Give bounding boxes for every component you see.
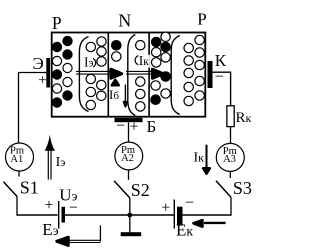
current arrow Iк downward bbox=[203, 145, 210, 174]
svg-text:+: + bbox=[161, 199, 170, 216]
emitter contact bar bbox=[46, 58, 50, 88]
wire base down to A2 bbox=[128, 122, 130, 142]
emitter region acceptor/hole lattice column 2 bbox=[63, 36, 72, 100]
base electron column bbox=[135, 41, 145, 112]
base region brace bbox=[128, 35, 136, 116]
wire node down to terminal bbox=[129, 215, 131, 232]
wire collector horizontal bbox=[213, 71, 232, 73]
svg-text:−: − bbox=[185, 195, 194, 212]
svg-text:S1: S1 bbox=[20, 177, 39, 197]
terminal bar below node bbox=[121, 232, 142, 236]
collector hole cloud column 2 bbox=[195, 35, 204, 100]
svg-text:A2: A2 bbox=[121, 153, 134, 164]
svg-text:A1: A1 bbox=[10, 154, 23, 165]
junction node dot bbox=[127, 213, 132, 218]
svg-text:S3: S3 bbox=[233, 178, 252, 198]
bottom rail left segment bbox=[17, 214, 58, 216]
emitter-base junction divider bbox=[107, 33, 109, 117]
svg-text:Iк: Iк bbox=[194, 151, 205, 166]
arrow Iэ through emitter-base junction bbox=[76, 69, 122, 78]
wire S1 down to rail bbox=[16, 197, 18, 216]
svg-text:Iэ: Iэ bbox=[56, 155, 66, 170]
ammeter A1 bbox=[6, 143, 34, 171]
emitter region brace bbox=[79, 37, 88, 112]
svg-text:+: + bbox=[45, 197, 54, 214]
bottom rail right segment bbox=[183, 214, 232, 216]
wire emitter vertical down to A1 bbox=[18, 73, 20, 144]
label Iэ emitter current inside box bbox=[83, 57, 93, 68]
transistor body outline bbox=[52, 33, 206, 117]
battery Uэ negative plate bbox=[62, 207, 66, 223]
collector region lattice column 2 bbox=[161, 32, 170, 98]
svg-text:N: N bbox=[118, 10, 131, 30]
battery Eк positive plate bbox=[173, 200, 175, 229]
ammeter A2 bbox=[115, 142, 143, 170]
current arrow Iэ upward bbox=[45, 135, 55, 180]
arrow Iк through base-collector junction bbox=[126, 69, 163, 78]
emitter hole cloud column 1 bbox=[86, 42, 96, 109]
base region donor column bbox=[112, 41, 121, 62]
switch S1 blade bbox=[3, 182, 17, 197]
svg-text:S2: S2 bbox=[131, 180, 150, 200]
ammeter A3 bbox=[216, 143, 244, 171]
collector region lattice column 1 bbox=[151, 37, 161, 104]
svg-text:Р: Р bbox=[197, 10, 206, 29]
battery Uэ positive plate bbox=[58, 201, 60, 229]
svg-text:Iб: Iб bbox=[109, 87, 119, 102]
svg-text:Rк: Rк bbox=[236, 110, 252, 126]
svg-text:−: − bbox=[69, 200, 78, 217]
wire stub below A1 bbox=[18, 172, 20, 177]
svg-text:A3: A3 bbox=[223, 154, 236, 165]
wire emitter horizontal bbox=[19, 72, 47, 74]
resistor Rк bbox=[227, 106, 234, 127]
battery Eк negative plate bbox=[177, 207, 183, 226]
svg-text:Б: Б bbox=[147, 117, 157, 136]
svg-text:Р: Р bbox=[52, 13, 62, 33]
EMF arrow Eк bbox=[194, 220, 226, 226]
svg-text:−: − bbox=[215, 68, 224, 85]
switch S2 blade bbox=[114, 181, 130, 198]
svg-text:Iэ: Iэ bbox=[84, 55, 94, 70]
EMF arrow Eэ bbox=[57, 225, 101, 245]
switch S3 blade bbox=[216, 181, 231, 198]
recombination marker triangle in base bbox=[112, 80, 119, 85]
emitter region acceptor/hole lattice column 1 bbox=[52, 42, 61, 107]
svg-text:Iк: Iк bbox=[139, 53, 150, 68]
base-collector junction divider bbox=[148, 33, 150, 117]
svg-text:Eэ: Eэ bbox=[42, 220, 58, 239]
svg-text:−: − bbox=[116, 118, 125, 135]
wire resistor down to A3 bbox=[230, 127, 232, 144]
wire stub below A2 bbox=[128, 170, 130, 180]
collector contact bar bbox=[208, 61, 213, 88]
wire stub below A3 bbox=[229, 171, 231, 178]
collector hole cloud column 1 bbox=[184, 43, 193, 105]
label Iк collector current inside box bbox=[138, 55, 150, 68]
emitter hole cloud column 2 bbox=[97, 37, 107, 101]
collector region brace bbox=[171, 36, 180, 115]
svg-text:+: + bbox=[38, 72, 46, 88]
svg-text:+: + bbox=[130, 119, 139, 136]
base contact bar bbox=[115, 118, 143, 122]
arrow Iб downward bbox=[124, 85, 127, 107]
wire S2 down to rail bbox=[129, 198, 131, 215]
wire S3 down to rail bbox=[230, 197, 232, 215]
svg-text:Э: Э bbox=[33, 54, 44, 73]
svg-text:Eк: Eк bbox=[176, 221, 193, 240]
wire collector down to resistor bbox=[230, 72, 232, 106]
bottom rail middle segment bbox=[65, 214, 174, 216]
